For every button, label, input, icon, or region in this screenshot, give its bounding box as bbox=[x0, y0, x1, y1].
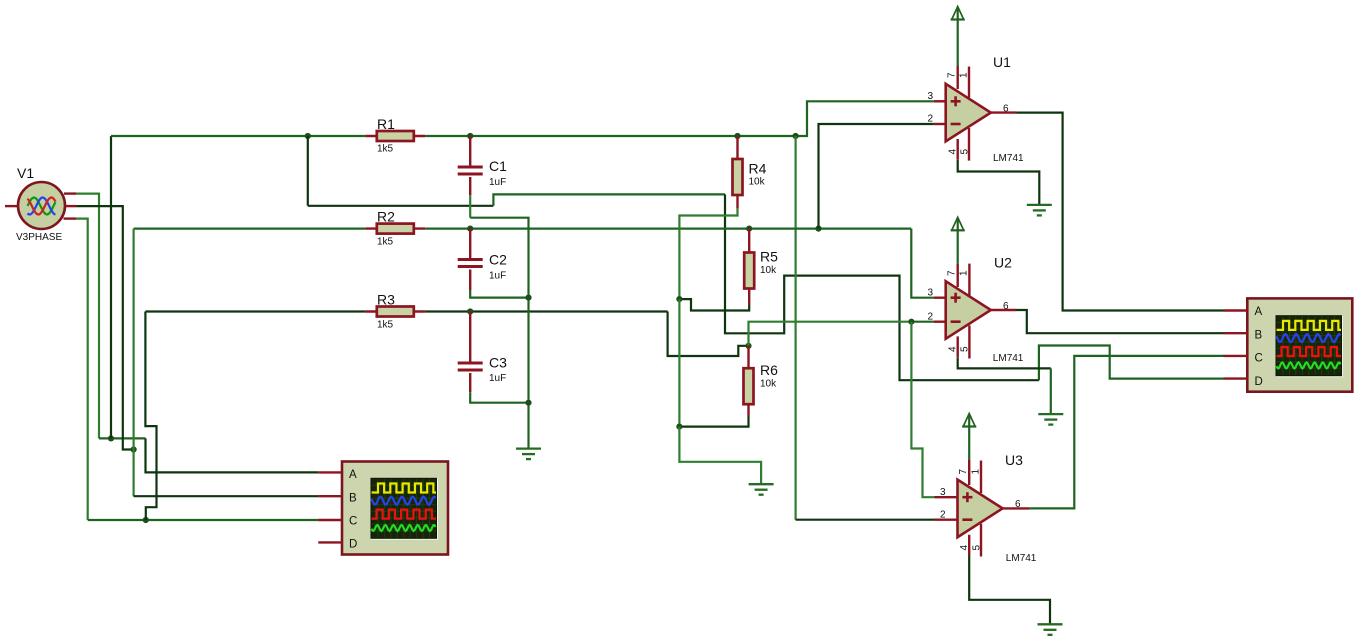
svg-text:U1: U1 bbox=[993, 54, 1011, 70]
svg-text:4: 4 bbox=[947, 346, 958, 352]
U2 pin4 line bbox=[957, 336, 959, 357]
svg-text:6: 6 bbox=[1003, 301, 1009, 312]
resistor R5 top lead bbox=[748, 229, 750, 253]
right scope pin B stub bbox=[1224, 332, 1248, 334]
wire r3out branch down to U3 pin3 bbox=[911, 322, 934, 498]
resistor R1 leads bbox=[365, 135, 425, 137]
svg-text:C2: C2 bbox=[489, 252, 507, 268]
power symbol for U2 bbox=[951, 217, 965, 230]
svg-text:R5: R5 bbox=[760, 249, 778, 265]
wire u2gnd from pin4 bbox=[958, 358, 1051, 369]
wire phase2 from V1 pin2 bbox=[76, 206, 133, 449]
svg-text:6: 6 bbox=[1003, 104, 1009, 115]
svg-text:10k: 10k bbox=[760, 265, 777, 276]
V1 pin stub phase1 bbox=[64, 192, 76, 194]
U3 pin2 stub bbox=[935, 519, 958, 521]
svg-text:3: 3 bbox=[927, 91, 933, 102]
resistor R6 top lead bbox=[747, 346, 749, 369]
right scope pin C stub bbox=[1224, 355, 1248, 357]
U3 pin3 stub bbox=[935, 496, 958, 498]
svg-text:1k5: 1k5 bbox=[377, 320, 394, 331]
junction r1out at C1 top bbox=[467, 133, 473, 139]
left scope body bbox=[342, 462, 448, 555]
wire phase1 step up to y194 bbox=[493, 194, 725, 205]
svg-text:2: 2 bbox=[927, 311, 933, 322]
svg-text:4: 4 bbox=[959, 545, 970, 551]
wire phase3 R3 input run y311 bbox=[145, 310, 365, 312]
svg-text:4: 4 bbox=[947, 149, 958, 155]
svg-text:5: 5 bbox=[960, 346, 971, 352]
svg-text:C: C bbox=[349, 516, 357, 528]
left scope pin B stub bbox=[318, 495, 342, 497]
left scope pin D stub bbox=[318, 541, 342, 543]
wire r2out branch to U1 pin2 bbox=[819, 124, 934, 229]
right scope pin A stub bbox=[1224, 309, 1248, 311]
U1 output stub pin6 bbox=[991, 111, 1017, 113]
resistor R5 bottom lead bbox=[748, 289, 750, 306]
svg-text:R1: R1 bbox=[377, 116, 395, 132]
ground for U2 bbox=[1038, 414, 1063, 425]
svg-text:C1: C1 bbox=[489, 158, 507, 174]
svg-text:B: B bbox=[349, 493, 357, 505]
U2 pin2 stub bbox=[934, 321, 946, 323]
wire r1out to U3 pin2 bbox=[796, 519, 935, 521]
svg-text:1: 1 bbox=[958, 72, 969, 78]
wire r2out to U2 pin3 bbox=[911, 229, 934, 298]
capacitor C1 bottom lead bbox=[469, 177, 471, 195]
junction phase3 at 145.8,520 bbox=[143, 517, 149, 523]
right scope body bbox=[1247, 298, 1352, 391]
resistor R2 leads bbox=[365, 227, 425, 229]
wire phase1 vertical x111 bbox=[110, 136, 112, 438]
svg-text:LM741: LM741 bbox=[993, 153, 1024, 164]
junction phase1 at 111,438 bbox=[108, 435, 114, 441]
svg-text:U2: U2 bbox=[994, 255, 1012, 271]
U1 minus mark bbox=[951, 123, 961, 126]
U1 pin7 line bbox=[957, 66, 959, 89]
right scope screen with waveforms bbox=[1276, 316, 1343, 378]
wire phase1 horizontal run y438 bbox=[99, 437, 146, 439]
U2 pin3 stub bbox=[934, 297, 946, 299]
U2 plus mark bbox=[951, 293, 961, 303]
wire r2out run y228 bbox=[425, 228, 911, 230]
wire rgnd to ground bbox=[679, 427, 761, 485]
svg-text:2: 2 bbox=[940, 510, 946, 521]
capacitor C1 plates bbox=[458, 167, 483, 174]
wire u1gnd from pin4 bbox=[958, 160, 1040, 205]
op-amp U2 triangle bbox=[946, 281, 991, 339]
wire u2out to right scope B bbox=[1017, 310, 1224, 333]
svg-text:2: 2 bbox=[927, 114, 933, 125]
power symbol for U1 bbox=[951, 7, 965, 20]
svg-text:1uF: 1uF bbox=[489, 177, 506, 188]
right scope pin D stub bbox=[1224, 377, 1248, 379]
junction rgnd at 679,427 bbox=[676, 424, 682, 430]
svg-text:A: A bbox=[1255, 306, 1263, 318]
capacitor C3 plates bbox=[458, 363, 483, 370]
wire r3out R6top up to U2 pin2 row bbox=[749, 322, 912, 346]
wire U2 power stem bbox=[957, 230, 959, 264]
capacitor C1 top lead bbox=[469, 136, 471, 166]
svg-text:1uF: 1uF bbox=[489, 271, 506, 282]
U1 pin5 line bbox=[968, 128, 970, 161]
wire u1out to right scope A bbox=[1017, 113, 1224, 311]
U3 pin4 line bbox=[968, 535, 970, 556]
wire cgnd C3 bottom jog bbox=[470, 392, 528, 403]
svg-text:5: 5 bbox=[971, 545, 982, 551]
U3 pin1 line bbox=[980, 461, 982, 494]
resistor R1 body bbox=[377, 131, 414, 141]
resistor R6 body bbox=[744, 368, 754, 404]
wire phase2 to left scope B bbox=[134, 495, 319, 497]
svg-text:7: 7 bbox=[958, 469, 969, 475]
U1 pin1 line bbox=[968, 67, 970, 98]
svg-text:V1: V1 bbox=[17, 165, 34, 181]
svg-text:U3: U3 bbox=[1005, 452, 1023, 468]
junction phase1 at 308,136 bbox=[305, 133, 311, 139]
svg-text:10k: 10k bbox=[749, 177, 766, 188]
svg-text:LM741: LM741 bbox=[993, 353, 1024, 364]
wire cgnd C1 bottom jog bbox=[470, 218, 528, 449]
left scope screen with waveforms bbox=[371, 478, 438, 540]
wire cgnd C1 bottom lead segment bbox=[469, 195, 471, 218]
U2 pin5 line bbox=[968, 325, 970, 358]
U3 pin7 line bbox=[968, 460, 970, 485]
wire phase3 from V1 pin3 bbox=[76, 219, 87, 520]
wire rgnd R4 bottom path bbox=[679, 209, 737, 300]
junction r2out at U1 pin2 branch bbox=[815, 226, 821, 232]
svg-text:7: 7 bbox=[947, 270, 958, 276]
svg-text:D: D bbox=[349, 539, 357, 551]
U3 plus mark bbox=[962, 492, 972, 502]
svg-text:1k5: 1k5 bbox=[377, 144, 394, 155]
wire r1out run y136 bbox=[425, 101, 934, 136]
resistor R5 body bbox=[744, 253, 754, 289]
wire phase1 upper jog to scope D bbox=[1039, 346, 1224, 381]
svg-text:10k: 10k bbox=[760, 379, 777, 390]
op-amp U3 triangle bbox=[958, 480, 1003, 538]
wire u2gnd stem bbox=[1050, 368, 1052, 414]
left scope pin A stub bbox=[318, 471, 342, 473]
junction r1out at R4 top bbox=[734, 133, 740, 139]
ground for U1 bbox=[1027, 205, 1052, 216]
U3 output stub pin6 bbox=[1003, 507, 1029, 509]
wire phase3 to left scope C bbox=[88, 519, 319, 521]
resistor R6 bottom lead bbox=[747, 404, 749, 416]
U1 pin2 stub bbox=[934, 123, 946, 125]
svg-text:A: A bbox=[349, 469, 357, 481]
junction cgnd at C3 bbox=[525, 400, 531, 406]
wire phase1 to left scope A bbox=[146, 438, 319, 472]
V1 pin stub phase2 bbox=[65, 205, 76, 207]
svg-text:C3: C3 bbox=[489, 355, 507, 371]
junction rgnd at 679,299 bbox=[676, 296, 682, 302]
resistor R3 leads bbox=[365, 310, 425, 312]
wire phase2 R2 input run y228 bbox=[134, 228, 366, 230]
junction r3out at C3 top bbox=[467, 308, 473, 314]
svg-text:V3PHASE: V3PHASE bbox=[16, 232, 62, 243]
svg-text:B: B bbox=[1255, 330, 1263, 342]
junction r1out at x795.6 bbox=[793, 133, 799, 139]
resistor R4 body bbox=[733, 159, 743, 195]
resistor R3 body bbox=[377, 307, 414, 317]
wire phase1 R1 input run y136 bbox=[111, 135, 365, 137]
power symbol for U3 bbox=[962, 414, 976, 427]
U2 pin7 line bbox=[957, 264, 959, 287]
svg-text:1uF: 1uF bbox=[489, 373, 506, 384]
svg-text:6: 6 bbox=[1015, 499, 1021, 510]
wire phase2 vertical x133.6 bbox=[133, 229, 135, 497]
wire r3out run y311 bbox=[425, 310, 667, 312]
svg-text:1: 1 bbox=[959, 270, 970, 276]
U2 output stub pin6 bbox=[991, 309, 1017, 311]
svg-text:5: 5 bbox=[959, 149, 970, 155]
U2 minus mark bbox=[951, 320, 961, 323]
V1 pin stub phase3 bbox=[64, 217, 77, 219]
U1 pin4 line bbox=[957, 139, 959, 160]
capacitor C3 top lead bbox=[469, 312, 471, 362]
svg-text:R2: R2 bbox=[377, 209, 395, 225]
wire u3out to right scope C bbox=[1029, 356, 1224, 509]
resistor R2 body bbox=[377, 224, 414, 234]
V1 internal sine waves bbox=[28, 198, 56, 215]
svg-text:1k5: 1k5 bbox=[377, 237, 394, 248]
junction cgnd at C2 bbox=[525, 295, 531, 301]
ground for capacitors bbox=[516, 449, 541, 460]
left scope pin C stub bbox=[318, 519, 342, 521]
wire U1 power stem bbox=[957, 20, 959, 67]
ground for resistors bbox=[749, 484, 774, 495]
U3 minus mark bbox=[962, 518, 972, 521]
wire cgnd C2 bottom jog bbox=[470, 290, 528, 298]
wire phase1 long path to right scope D bbox=[725, 194, 1039, 380]
wire phase1 vertical x308 down bbox=[307, 136, 309, 206]
wire phase1 from V1 pin1 to corner bbox=[76, 194, 99, 439]
capacitor C2 plates bbox=[458, 260, 483, 267]
junction r2out at C2 top bbox=[467, 226, 473, 232]
svg-text:C: C bbox=[1255, 353, 1263, 365]
wire r1out long vertical x795.6 bbox=[794, 136, 796, 520]
V1 left pin stub bbox=[5, 205, 19, 207]
wire phase1 run y205 bbox=[308, 205, 494, 207]
wire rgnd vertical x679 bbox=[678, 299, 680, 427]
capacitor C3 bottom lead bbox=[469, 373, 471, 392]
junction r2out at R5 top bbox=[746, 226, 752, 232]
svg-text:7: 7 bbox=[947, 72, 958, 78]
svg-text:R4: R4 bbox=[749, 161, 767, 177]
op-amp U1 triangle bbox=[946, 84, 991, 142]
ground for U3 bbox=[1038, 624, 1063, 635]
svg-text:LM741: LM741 bbox=[1006, 553, 1037, 564]
junction r3out at R6 top bbox=[745, 343, 751, 349]
wire rgnd R6 bottom path bbox=[679, 417, 748, 427]
svg-text:1: 1 bbox=[970, 469, 981, 475]
wire rgnd R5 bottom path bbox=[679, 299, 749, 310]
U1 pin3 stub bbox=[934, 100, 946, 102]
U1 plus mark bbox=[951, 96, 961, 106]
wire U3 power stem bbox=[968, 427, 970, 461]
junction phase2 at 133.6,449.5 bbox=[131, 446, 137, 452]
voltage source V1 body bbox=[18, 182, 65, 229]
resistor R4 top lead bbox=[736, 136, 738, 159]
svg-text:R3: R3 bbox=[377, 292, 395, 308]
capacitor C2 bottom lead bbox=[469, 270, 471, 291]
wire phase3 R3 input vertical jog bbox=[145, 312, 156, 521]
resistor R4 bottom lead bbox=[736, 195, 738, 209]
wire r3out jog to R6 top bbox=[668, 312, 749, 357]
U2 pin1 line bbox=[968, 264, 970, 296]
capacitor C2 top lead bbox=[469, 229, 471, 258]
U3 pin5 line bbox=[980, 524, 982, 557]
junction r3out at U2 pin2 branch bbox=[908, 319, 914, 325]
svg-text:D: D bbox=[1255, 376, 1263, 388]
svg-text:3: 3 bbox=[940, 487, 946, 498]
svg-text:3: 3 bbox=[927, 287, 933, 298]
wire r3out to U2 pin2 bbox=[911, 321, 934, 323]
wire u3gnd from pin4 bbox=[969, 556, 1050, 625]
svg-text:R6: R6 bbox=[760, 362, 778, 378]
